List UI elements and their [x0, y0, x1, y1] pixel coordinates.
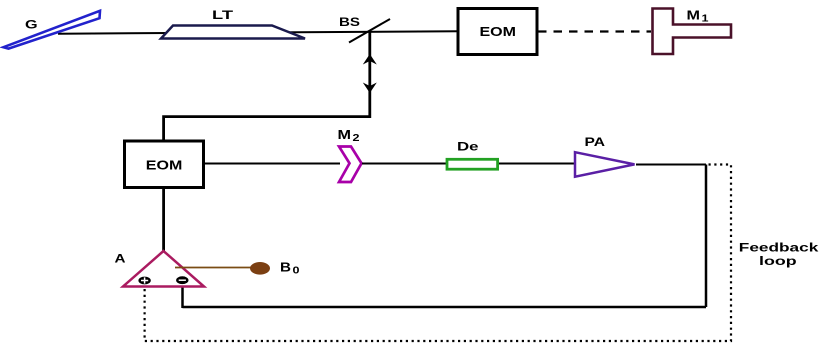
arrowhead down — [363, 83, 377, 94]
adder A triangle — [123, 251, 204, 287]
grating G — [4, 11, 101, 49]
svg-text:De: De — [457, 140, 479, 154]
svg-text:PA: PA — [585, 135, 606, 149]
svg-text:EOM: EOM — [480, 25, 517, 39]
node plus — [138, 277, 150, 285]
wire dotted feedback loop — [145, 165, 731, 342]
arrowhead up — [363, 54, 377, 65]
svg-text:0: 0 — [293, 266, 301, 277]
svg-text:2: 2 — [353, 133, 361, 144]
svg-text:B: B — [280, 261, 291, 275]
mirror M2 — [339, 147, 362, 183]
svg-text:LT: LT — [212, 10, 233, 22]
wire M2 to De — [362, 163, 448, 165]
wire BS down — [164, 32, 370, 142]
svg-text:EOM: EOM — [146, 159, 183, 173]
EOM U1 box — [458, 9, 537, 55]
svg-text:Feedback: Feedback — [739, 241, 819, 255]
svg-text:loop: loop — [759, 254, 797, 268]
svg-text:M: M — [687, 9, 701, 23]
wire feedback up to minus — [181, 284, 184, 308]
wire feedback bottom — [183, 306, 707, 309]
svg-text:A: A — [115, 252, 126, 266]
wire feedback right down — [705, 165, 708, 308]
wire EOM2 to M2 — [204, 163, 340, 165]
node minus — [176, 276, 188, 284]
detector De — [447, 159, 498, 169]
wire De to PA — [499, 163, 575, 165]
svg-text:BS: BS — [339, 17, 360, 29]
beam splitter BS — [349, 19, 390, 43]
laser tube LT — [161, 26, 305, 39]
wire brown to B0 — [175, 267, 252, 269]
svg-text:M: M — [338, 128, 352, 142]
wire PA to corner — [636, 164, 706, 166]
amplifier PA — [575, 152, 635, 177]
wire beam G to EOM1 — [58, 31, 458, 33]
wire dashed EOM1 to M1 — [538, 30, 651, 32]
svg-text:G: G — [25, 18, 38, 32]
EOM U2 box — [125, 141, 204, 188]
svg-text:1: 1 — [702, 14, 710, 25]
mirror M1 — [653, 9, 732, 55]
node B0 — [250, 262, 270, 275]
wire EOM2 down to A — [162, 188, 165, 253]
